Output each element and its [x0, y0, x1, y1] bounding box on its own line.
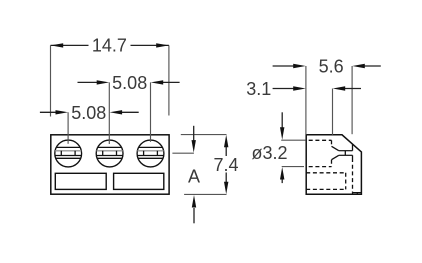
svg-text:ø3.2: ø3.2 [251, 143, 287, 163]
extension line bottom shared [184, 193, 226, 195]
svg-text:5.6: 5.6 [319, 57, 344, 77]
dimension diameter 3.2 [251, 112, 287, 183]
extension line hole top [281, 139, 305, 141]
dimension 5.08 upper [78, 73, 180, 93]
svg-text:5.08: 5.08 [71, 103, 106, 123]
extension line 7.4 top [181, 134, 227, 136]
extension line hole bottom [282, 166, 304, 168]
extension line 14.7 right [168, 45, 170, 115]
wall below channel [352, 155, 354, 158]
extension line side left [305, 66, 307, 135]
wall above channel [352, 144, 354, 151]
svg-text:5.08: 5.08 [112, 73, 147, 93]
extension line 5.6 right [351, 66, 353, 134]
hidden hole bottom [309, 166, 332, 168]
wire opening right [114, 173, 164, 189]
svg-text:A: A [188, 166, 200, 186]
extension line 14.7 left [50, 45, 52, 116]
hidden hole end wall lower [331, 160, 333, 167]
wire opening left [55, 173, 106, 189]
extension line A top [172, 152, 194, 154]
front view outline [51, 135, 169, 194]
hidden hole end wall upper [331, 140, 333, 146]
svg-text:3.1: 3.1 [246, 79, 271, 99]
svg-text:14.7: 14.7 [92, 36, 127, 56]
extension line circle 3 [150, 82, 152, 141]
dimension 5.08 lower [40, 103, 139, 123]
svg-text:7.4: 7.4 [213, 155, 238, 175]
dimension 14.7 [51, 36, 169, 56]
bottom right foot boxes [353, 193, 362, 195]
screw circle 3 [137, 140, 164, 167]
screw circle 1 [55, 140, 82, 167]
dimension 3.1 [246, 79, 361, 99]
side view outline [306, 135, 361, 194]
extension line circle 2 [108, 82, 110, 144]
dimension 5.6 [273, 57, 381, 77]
extension line circle 1 [67, 112, 69, 144]
screw circle 2 [96, 140, 123, 167]
extension line 3.1 right [332, 89, 334, 135]
dimension 7.4 [213, 135, 238, 194]
dimension A [188, 126, 200, 224]
hidden hole top [309, 139, 332, 141]
hidden cavity rectangle [306, 173, 346, 190]
clamp funnel [332, 146, 353, 159]
hidden wall near right edge [352, 158, 354, 193]
